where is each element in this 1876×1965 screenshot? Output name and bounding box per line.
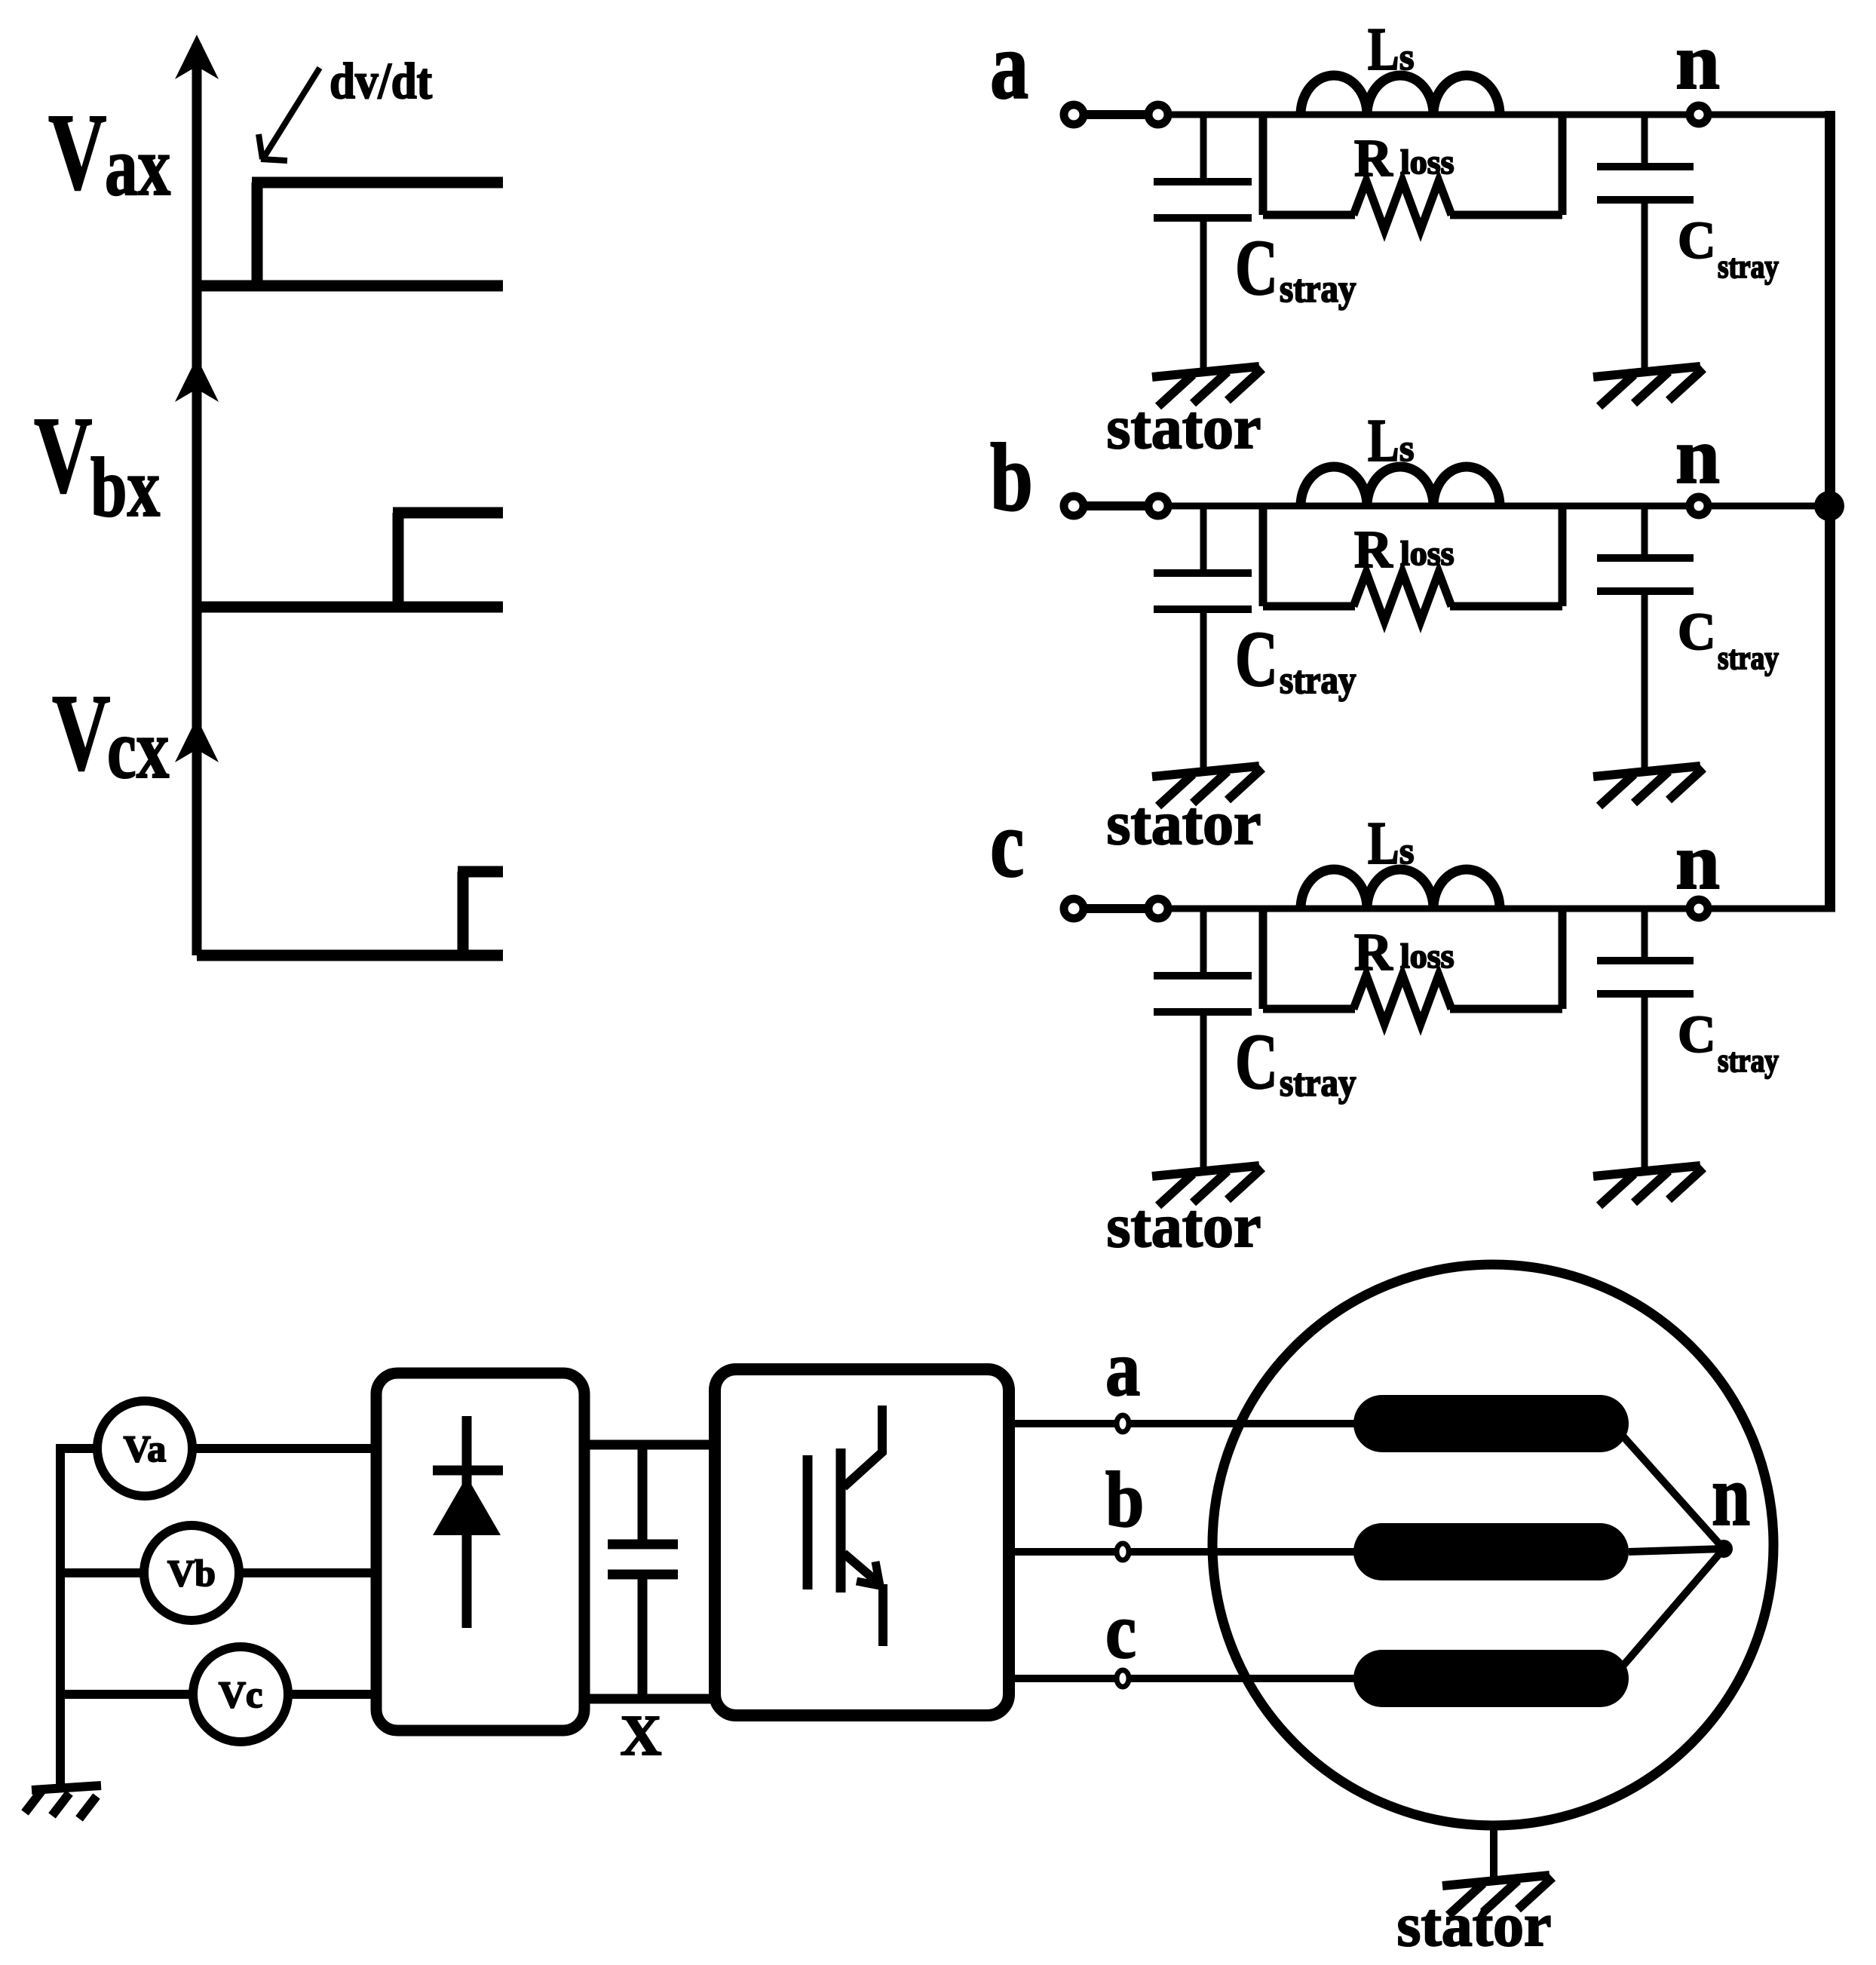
wire: R-branch bottom right phase c (1450, 1005, 1562, 1013)
wire: right Cstray to ground phase c (1641, 994, 1648, 1168)
wire: stub to right Cstray phase b (1641, 506, 1648, 558)
wire: winding c to n (1621, 1549, 1724, 1668)
label dv/dt (330, 52, 432, 109)
svg-text:C: C (1235, 224, 1278, 312)
wire: R-branch bottom left phase c (1263, 1005, 1355, 1013)
ground (stator) left phase a (1152, 366, 1262, 406)
capacitor Cstray right phase c (1597, 961, 1694, 994)
rectifier box (376, 1373, 584, 1730)
terminal circle 2 phase c (1148, 899, 1168, 918)
wire: winding a to n (1621, 1434, 1724, 1549)
label Rloss phase a (1354, 130, 1455, 188)
label Cstray left phase a (1235, 224, 1356, 312)
axis arrowhead 3 (175, 718, 219, 762)
capacitor DC link X (608, 1445, 678, 1699)
output terminal b (1117, 1543, 1129, 1560)
axis arrowhead 2 (175, 357, 219, 402)
inductor Ls phase a (1301, 75, 1500, 115)
wire: R-branch right drop phase a (1559, 115, 1567, 215)
wire: R-branch left drop phase c (1259, 909, 1268, 1009)
output node c label (1105, 1588, 1136, 1675)
output node b label (1105, 1457, 1144, 1544)
wire: inverter output b (1009, 1548, 1355, 1556)
source Vc (193, 1647, 288, 1742)
capacitor Cstray right phase a (1597, 167, 1694, 200)
wire: stub to right Cstray phase c (1641, 909, 1648, 961)
svg-text:stator: stator (1397, 1890, 1552, 1959)
output terminal c (1117, 1670, 1129, 1687)
wire: left Cstray to ground phase b (1200, 609, 1207, 768)
wire: R-branch left drop phase b (1259, 506, 1268, 606)
svg-text:L: L (1368, 407, 1399, 474)
svg-text:stray: stray (1280, 267, 1356, 311)
label Cstray left phase c (1235, 1018, 1356, 1106)
wire: R-branch bottom right phase b (1450, 602, 1562, 611)
svg-text:n: n (1712, 1447, 1750, 1543)
svg-text:V: V (48, 90, 106, 212)
svg-text:c: c (1105, 1588, 1136, 1675)
node c label (990, 791, 1024, 897)
label Cstray right phase c (1678, 1006, 1779, 1079)
winding phase c (1353, 1650, 1629, 1707)
svg-text:V: V (34, 394, 92, 515)
capacitor Cstray left phase c (1154, 976, 1252, 1012)
wire: DC link bottom (584, 1694, 715, 1704)
inductor Ls phase c (1301, 869, 1500, 909)
wire: source line Va (56, 1444, 376, 1453)
wire: right Cstray to ground phase a (1641, 200, 1648, 369)
svg-text:s: s (1399, 35, 1414, 78)
svg-text:loss: loss (1400, 143, 1455, 181)
ground right phase a (1593, 366, 1703, 406)
svg-text:s: s (1399, 427, 1414, 469)
ground for sources (25, 1786, 101, 1819)
svg-text:V: V (52, 671, 110, 792)
node n terminal circle phase c (1690, 900, 1708, 918)
svg-text:L: L (1368, 16, 1399, 83)
wire: R-branch right drop phase b (1559, 506, 1567, 606)
wire: DC link top (584, 1440, 715, 1450)
node b label (990, 425, 1033, 531)
wire: inverter output c (1009, 1675, 1355, 1682)
wire: left Cstray to ground phase c (1200, 1012, 1207, 1168)
motor stator circle (1212, 1265, 1773, 1826)
wire: input link phase a (1074, 110, 1158, 119)
svg-text:loss: loss (1400, 534, 1455, 572)
svg-text:C: C (1678, 212, 1716, 270)
wire: motor frame to ground (1490, 1825, 1497, 1878)
wire: input link phase c (1074, 904, 1158, 913)
capacitor Cstray left phase a (1154, 182, 1252, 218)
label Cstray right phase a (1678, 212, 1779, 285)
svg-text:L: L (1368, 810, 1399, 877)
junction dot on neutral bus (1814, 491, 1844, 521)
output terminal a (1117, 1415, 1129, 1432)
terminal circle 1 phase b (1064, 496, 1084, 516)
svg-text:a: a (990, 13, 1028, 119)
resistor Rloss zigzag phase a (1353, 181, 1451, 230)
ground right phase c (1593, 1166, 1703, 1206)
wire: R-branch left drop phase a (1259, 115, 1268, 215)
wire: input link phase b (1074, 501, 1158, 510)
waveform Vax trace (197, 182, 503, 286)
label Ls phase c (1368, 810, 1414, 877)
node n label (motor) (1712, 1447, 1750, 1543)
svg-text:dv/dt: dv/dt (330, 52, 432, 109)
waveform axis vertical line (192, 44, 202, 955)
wire: main horizontal phase b (1168, 503, 1835, 510)
svg-text:R: R (1354, 924, 1393, 982)
wire: R-branch bottom left phase a (1263, 211, 1355, 219)
svg-text:stray: stray (1718, 639, 1779, 676)
wire: winding b to n (1629, 1549, 1724, 1552)
svg-text:a: a (1105, 1326, 1140, 1413)
source Vb (144, 1525, 239, 1620)
terminal circle 2 phase b (1148, 496, 1168, 516)
wire: right Cstray to ground phase b (1641, 591, 1648, 768)
label Rloss phase b (1354, 521, 1455, 579)
label Cstray left phase b (1235, 615, 1356, 704)
resistor Rloss zigzag phase c (1353, 975, 1451, 1024)
svg-text:n: n (1675, 17, 1720, 106)
resistor Rloss zigzag phase b (1353, 572, 1451, 621)
svg-text:n: n (1675, 412, 1720, 500)
svg-text:stray: stray (1718, 1042, 1779, 1078)
wire: R-branch bottom left phase b (1263, 602, 1355, 611)
node n terminal circle phase b (1690, 497, 1708, 515)
winding phase a (1353, 1395, 1629, 1452)
ground (stator) motor (1442, 1875, 1553, 1915)
svg-text:Vc: Vc (219, 1673, 262, 1715)
wire: right neutral bus (1825, 111, 1835, 912)
svg-text:C: C (1678, 1006, 1716, 1064)
axis arrowhead 1 (175, 35, 219, 79)
dv/dt annotation arrow (259, 68, 320, 161)
diode inside rectifier (433, 1416, 503, 1628)
svg-text:C: C (1235, 615, 1278, 704)
label Ls phase b (1368, 407, 1414, 474)
waveform Vbx trace (197, 513, 503, 607)
svg-text:n: n (1675, 817, 1720, 906)
capacitor Cstray left phase b (1154, 573, 1252, 609)
wire: source left bus (56, 1448, 65, 1789)
wire: stub to right Cstray phase a (1641, 115, 1648, 167)
svg-text:stator: stator (1107, 1191, 1261, 1260)
label Ls phase a (1368, 16, 1414, 83)
svg-text:b: b (1105, 1457, 1144, 1544)
svg-text:stray: stray (1280, 1061, 1356, 1105)
node a label (990, 13, 1028, 119)
svg-text:ax: ax (105, 120, 170, 213)
wire: R-branch right drop phase c (1559, 909, 1567, 1009)
wire: source line Vb (56, 1568, 376, 1577)
svg-text:stray: stray (1280, 658, 1356, 702)
svg-text:Vb: Vb (167, 1552, 216, 1594)
wire: inverter output a (1009, 1420, 1355, 1427)
waveform Vcx trace (197, 872, 503, 955)
node n junction dot (motor) (1715, 1540, 1733, 1558)
source Va (97, 1401, 192, 1496)
label Vcx (52, 671, 169, 796)
wire: main horizontal phase a (1168, 112, 1835, 118)
svg-text:C: C (1235, 1018, 1278, 1106)
ground (stator) left phase b (1152, 766, 1262, 806)
svg-text:Va: Va (124, 1427, 167, 1470)
ground (stator) left phase c (1152, 1166, 1262, 1206)
terminal circle 1 phase a (1064, 105, 1084, 124)
label Cstray right phase b (1678, 603, 1779, 676)
label Rloss phase c (1354, 924, 1455, 982)
svg-text:X: X (621, 1704, 662, 1767)
wire: stub to left Cstray phase c (1200, 909, 1207, 976)
wire: stub to left Cstray phase b (1200, 506, 1207, 573)
node n terminal circle phase a (1690, 106, 1708, 124)
label Vax (48, 90, 170, 213)
output node a label (1105, 1326, 1140, 1413)
svg-text:loss: loss (1400, 937, 1455, 975)
terminal circle 2 phase a (1148, 105, 1168, 124)
inverter box (715, 1369, 1009, 1715)
svg-text:stray: stray (1718, 248, 1779, 284)
svg-text:stator: stator (1107, 789, 1261, 857)
svg-text:stator: stator (1107, 393, 1261, 461)
svg-text:c: c (990, 791, 1024, 897)
svg-text:R: R (1354, 521, 1393, 579)
svg-text:bx: bx (90, 441, 160, 535)
inductor Ls phase b (1301, 467, 1500, 506)
wire: R-branch bottom right phase a (1450, 211, 1562, 219)
terminal circle 1 phase c (1064, 899, 1084, 918)
svg-text:cx: cx (107, 703, 169, 796)
svg-text:R: R (1354, 130, 1393, 188)
svg-text:C: C (1678, 603, 1716, 661)
wire: left Cstray to ground phase a (1200, 218, 1207, 369)
label Vbx (34, 394, 160, 534)
ground right phase b (1593, 766, 1703, 806)
wire: main horizontal phase c (1168, 906, 1835, 912)
svg-text:b: b (990, 425, 1033, 531)
wire: stub to left Cstray phase a (1200, 115, 1207, 182)
winding phase b (1353, 1523, 1629, 1580)
wire: source line Vc (56, 1690, 376, 1699)
svg-text:s: s (1399, 829, 1414, 872)
capacitor Cstray right phase b (1597, 558, 1694, 591)
IGBT symbol inside inverter (808, 1406, 883, 1646)
